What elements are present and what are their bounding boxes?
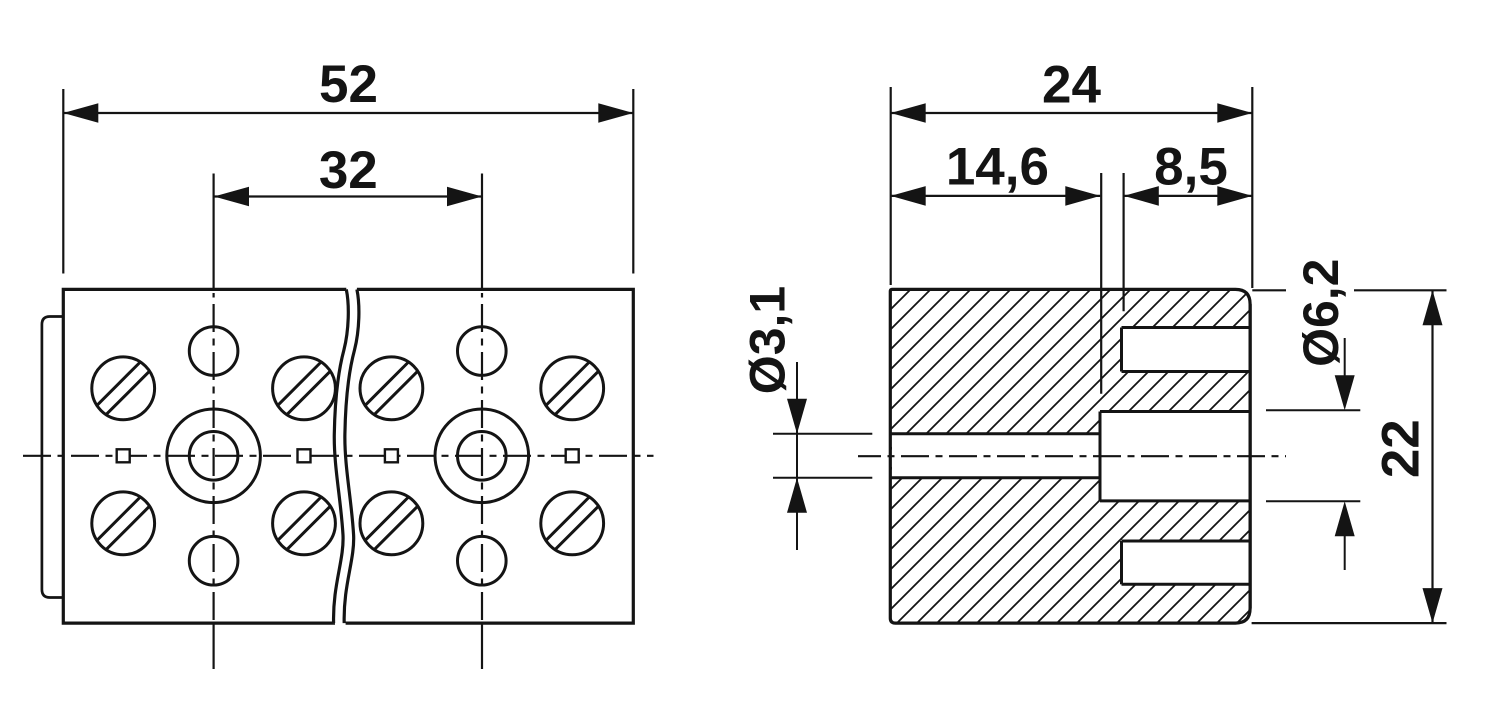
svg-text:Ø3,1: Ø3,1 (740, 286, 796, 394)
dimension 32 (214, 195, 482, 197)
middle chamber (white) (1100, 412, 1250, 501)
svg-text:22: 22 (1372, 419, 1431, 478)
dimension Ø6,2 (1266, 338, 1360, 570)
unit 1: top hole (189, 327, 238, 376)
unit 1: center bore outer (167, 409, 261, 503)
sectioned body with hatching (890, 289, 1250, 623)
internal edges (890, 328, 1250, 585)
slot edges (890, 432, 1100, 435)
unit 2: center bore inner (458, 432, 507, 481)
svg-text:32: 32 (319, 141, 378, 200)
body right part with wavy break edge (344, 289, 633, 623)
top chamber edges (1122, 326, 1251, 329)
mounting tab (left side) (42, 317, 63, 598)
unit 1: bottom hole (189, 536, 238, 585)
centerline horizontal (right view) (858, 455, 1286, 457)
top chamber (white) (1122, 328, 1250, 372)
dimension 24 (891, 87, 1253, 288)
svg-text:Ø6,2: Ø6,2 (1293, 258, 1349, 366)
body left part with wavy break edge (63, 289, 348, 623)
dim 22 extension lines (1252, 289, 1286, 291)
coding squares (117, 449, 579, 462)
svg-text:52: 52 (319, 55, 378, 114)
centerline vertical pole 2 (481, 174, 483, 290)
dimension 14,6 (891, 195, 1101, 197)
dimension 52 (63, 89, 633, 274)
bottom chamber (white) (1122, 541, 1250, 584)
dimension 8,5 (1124, 195, 1253, 197)
dimension Ø3,1 (773, 362, 872, 550)
svg-text:24: 24 (1042, 56, 1101, 115)
bottom chamber edges (1122, 540, 1251, 543)
screw terminals (slotted circles) (92, 357, 604, 555)
svg-text:14,6: 14,6 (946, 137, 1049, 196)
wire slot opening (white) (892, 434, 1100, 478)
body right edge redraw (1248, 304, 1251, 608)
unit 1: center bore inner (189, 432, 238, 481)
dimension 22 (1431, 290, 1433, 623)
centerline vertical pole 1 (213, 174, 215, 290)
unit 2: top hole (458, 327, 507, 376)
svg-text:8,5: 8,5 (1154, 137, 1228, 196)
middle chamber edges (1100, 410, 1250, 413)
unit 2: bottom hole (458, 536, 507, 585)
centerline horizontal (left view) (23, 455, 654, 457)
unit 2: center bore outer (435, 409, 529, 503)
